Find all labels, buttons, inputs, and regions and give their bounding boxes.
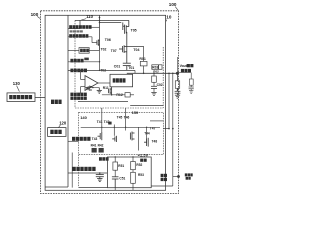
svg-text:R01: R01 [139, 57, 145, 61]
wire to T05 [100, 21, 122, 23]
svg-text:130: 130 [13, 81, 21, 86]
capacitor C52 with ground [96, 173, 104, 182]
transistor T45 [130, 132, 150, 141]
transistor T04 [119, 45, 139, 53]
wire startup input [68, 172, 107, 173]
label 100 (top-right) with leader [169, 2, 178, 10]
label 100 (top-left) with leader [31, 12, 41, 19]
controller box (kontoroora) [7, 93, 35, 102]
wire startup signal [68, 140, 79, 142]
memory box (kioku-bu) 120 [48, 128, 66, 137]
wire op-amp output [98, 82, 110, 84]
svg-text:R42: R42 [98, 144, 104, 148]
svg-text:Vout: Vout [180, 64, 188, 68]
external load resistor (far right) [189, 73, 194, 94]
GND terminal node and external label [173, 175, 180, 178]
svg-text:T46: T46 [124, 115, 130, 119]
signal label: Vth control signal [69, 34, 88, 38]
startup block 140 boundary (dashed) [79, 112, 164, 154]
svg-text:T43: T43 [92, 137, 98, 141]
svg-text:100: 100 [31, 12, 39, 17]
op-amp A1 (error amplifier) [80, 70, 98, 94]
signal label row1 second line (small) [70, 30, 83, 32]
small component on row4 [84, 58, 89, 61]
svg-text:T06: T06 [105, 38, 111, 42]
signal label: overcurrent protection (2 lines) [70, 93, 86, 100]
signal label: startup input signal [72, 167, 95, 171]
transistor T08 [109, 87, 113, 96]
Vout terminal label [180, 64, 194, 72]
wire block110 output to right column [130, 105, 163, 107]
wire row1 [68, 27, 100, 28]
label 120 with leader [59, 120, 67, 127]
control unit label text (seigyobu) [51, 100, 62, 104]
supply rail wire [75, 19, 129, 21]
reference voltage box [68, 48, 100, 54]
transistor T06 [97, 38, 111, 50]
resistor R11 [102, 93, 134, 98]
wire lower bus of block 110 [78, 101, 128, 103]
wire controller to device 10 [35, 96, 45, 98]
svg-text:110: 110 [86, 14, 93, 19]
GND terminal label [161, 174, 167, 181]
svg-text:C51: C51 [119, 177, 125, 181]
wire in startup block right [150, 120, 163, 122]
vertical wire left of RC box [71, 153, 73, 188]
ground symbol (op-amp) [97, 88, 102, 94]
transistor T44 [112, 136, 116, 142]
svg-text:C01: C01 [114, 65, 120, 69]
transistor designators T45 T46 [117, 115, 130, 119]
control unit box (seigyo-bu) right/bottom edges [45, 15, 68, 187]
inter-block vertical wires [102, 108, 126, 113]
wire row4 [68, 50, 100, 71]
svg-text:R51: R51 [118, 164, 124, 168]
resistor R01 [127, 46, 147, 73]
vertical wires in startup block [102, 113, 147, 143]
svg-text:R52: R52 [136, 163, 142, 167]
transistor T02 [85, 86, 99, 91]
resistor R51 [113, 156, 124, 177]
resistor R52 [131, 156, 143, 169]
svg-text:T48: T48 [152, 140, 158, 144]
regulator block 110 boundary (dashed, partial) [75, 20, 163, 108]
wire above Vout node [177, 57, 179, 73]
transistor T43 [92, 132, 102, 141]
resistors R41 R42 [91, 144, 104, 153]
resistor R53 [131, 170, 144, 188]
buffer block box [110, 74, 133, 87]
svg-text:R53: R53 [138, 173, 144, 177]
feedback divider R02 C02 with ground [151, 73, 163, 95]
svg-text:T04: T04 [133, 48, 139, 52]
svg-text:140: 140 [80, 115, 87, 120]
feedback wire 2 [151, 73, 173, 186]
capacitor C51 [112, 177, 126, 188]
signal label: startup signal [72, 137, 91, 141]
signal label: Vout control signal [69, 25, 91, 29]
signal label row4 [70, 59, 83, 63]
startup container left edge (dashed) [78, 155, 80, 188]
external load resistor and capacitor with ground [175, 73, 181, 98]
label +1.5V [138, 152, 149, 161]
resistor R03 [152, 65, 162, 74]
svg-text:R12: R12 [116, 93, 122, 97]
svg-text:10: 10 [166, 15, 172, 20]
feedback wire to startup block [163, 73, 170, 129]
RC filter box (solid) [107, 157, 151, 188]
junction on feedback wire 2 [172, 128, 174, 130]
startup RC box label text [99, 157, 109, 161]
device boundary box 100 (dashed) [41, 11, 179, 194]
label 110 with leader [81, 14, 94, 20]
svg-text:120: 120 [59, 120, 67, 125]
label 130 with leader [13, 81, 21, 92]
transistor T05 [123, 20, 137, 63]
Vout output rail [127, 70, 179, 75]
startup container bottom edge [79, 187, 108, 189]
svg-text:T01: T01 [128, 66, 134, 70]
svg-text:R11: R11 [103, 86, 109, 90]
svg-text:T45: T45 [117, 115, 123, 119]
svg-text:150: 150 [132, 110, 139, 115]
transistor T48 [144, 138, 157, 147]
ground stub wires to device bottom [115, 188, 133, 191]
wire row5 [68, 69, 135, 71]
wire in startup block center [138, 127, 140, 150]
svg-text:100: 100 [169, 2, 177, 7]
semiconductor device box 10 (solid) [45, 15, 166, 190]
svg-text:T44: T44 [144, 132, 150, 136]
svg-text:T07: T07 [111, 49, 117, 53]
wire stub at x=80 [79, 20, 81, 28]
label 10 with leader [166, 15, 172, 22]
capacitor C01 [114, 63, 131, 70]
signal label row5 [70, 69, 87, 73]
svg-text:T05: T05 [131, 29, 137, 33]
svg-text:R41: R41 [91, 144, 97, 148]
vertical wire node bus [99, 15, 101, 39]
Vout label underline leader [179, 72, 191, 74]
wire row2 to T06 gate [68, 37, 97, 43]
svg-text:T02: T02 [101, 47, 107, 51]
svg-text:C02: C02 [157, 83, 163, 87]
startup block bus wire [81, 127, 160, 128]
GND terminal outside label [185, 173, 193, 179]
transistor designators T41 T42 [97, 120, 112, 125]
